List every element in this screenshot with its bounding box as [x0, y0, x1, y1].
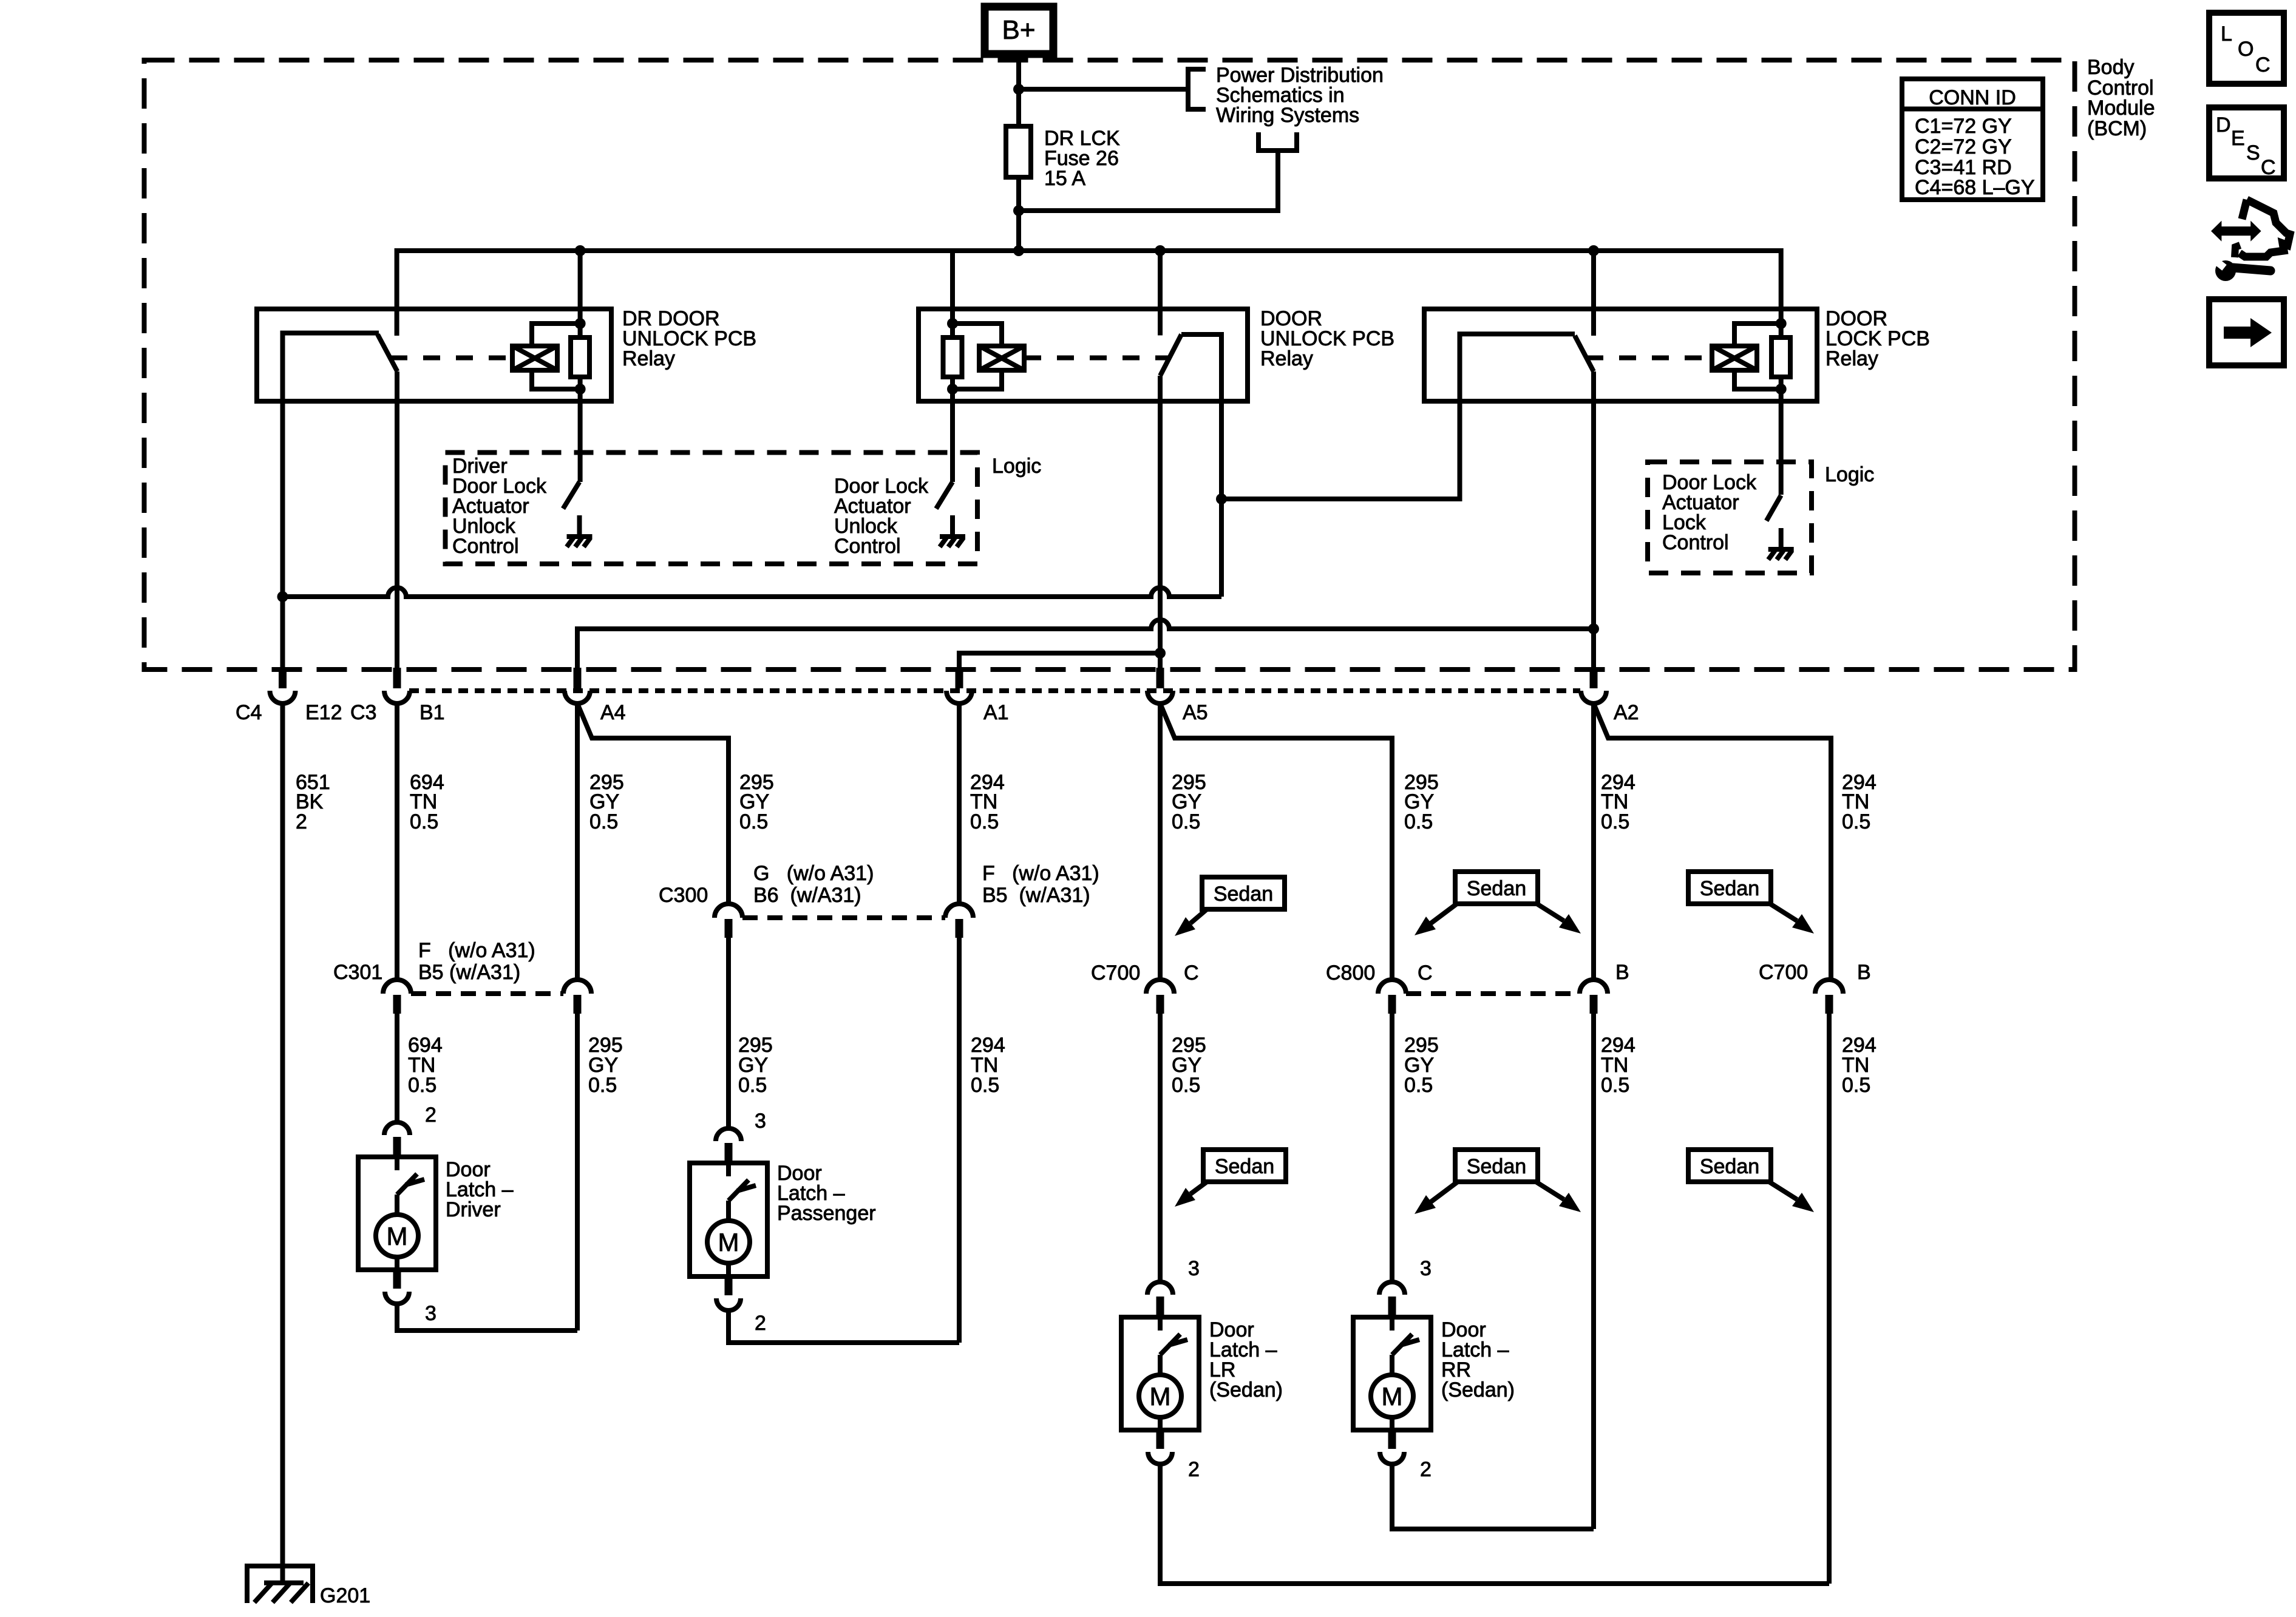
svg-text:Sedan: Sedan	[1700, 1155, 1759, 1178]
svg-text:0.5: 0.5	[971, 1074, 999, 1097]
svg-text:0.5: 0.5	[970, 810, 999, 833]
svg-text:C800: C800	[1326, 961, 1375, 985]
svg-text:3: 3	[755, 1110, 766, 1133]
svg-text:0.5: 0.5	[739, 810, 768, 833]
svg-text:F (w/o A31): F (w/o A31)	[982, 862, 1099, 885]
svg-text:Sedan: Sedan	[1467, 1155, 1526, 1178]
svg-text:0.5: 0.5	[1601, 1074, 1629, 1097]
svg-text:C300: C300	[659, 884, 708, 907]
svg-text:Sedan: Sedan	[1467, 877, 1526, 900]
svg-text:E12: E12	[305, 701, 342, 724]
svg-text:C3: C3	[350, 701, 376, 724]
svg-text:C700: C700	[1091, 961, 1140, 985]
svg-text:(BCM): (BCM)	[2087, 117, 2147, 140]
svg-text:A2: A2	[1614, 701, 1639, 724]
svg-text:Logic: Logic	[992, 455, 1041, 478]
svg-text:Sedan: Sedan	[1700, 877, 1759, 900]
svg-text:0.5: 0.5	[588, 1074, 617, 1097]
svg-text:Relay: Relay	[622, 347, 675, 370]
svg-text:(Sedan): (Sedan)	[1441, 1378, 1515, 1402]
svg-text:0.5: 0.5	[738, 1074, 767, 1097]
svg-text:B: B	[1615, 961, 1629, 984]
svg-text:0.5: 0.5	[1601, 810, 1629, 833]
svg-text:B5 (w/A31): B5 (w/A31)	[418, 961, 520, 984]
svg-text:M: M	[718, 1228, 739, 1256]
svg-text:0.5: 0.5	[1404, 810, 1433, 833]
svg-text:O: O	[2238, 38, 2254, 61]
svg-text:Logic: Logic	[1825, 463, 1874, 486]
svg-text:Sedan: Sedan	[1215, 1155, 1274, 1178]
svg-text:S: S	[2246, 141, 2260, 164]
svg-text:B6 (w/A31): B6 (w/A31)	[753, 884, 861, 907]
svg-text:B: B	[1857, 961, 1871, 984]
svg-text:0.5: 0.5	[1172, 810, 1200, 833]
svg-text:C4=68 L–GY: C4=68 L–GY	[1915, 176, 2035, 199]
svg-text:D: D	[2216, 114, 2231, 137]
svg-text:A4: A4	[600, 701, 626, 724]
svg-text:0.5: 0.5	[1842, 810, 1870, 833]
svg-text:3: 3	[425, 1302, 436, 1325]
svg-text:G201: G201	[320, 1584, 370, 1607]
svg-text:2: 2	[1188, 1458, 1200, 1481]
svg-text:15 A: 15 A	[1044, 167, 1085, 190]
svg-text:M: M	[1150, 1382, 1171, 1411]
svg-text:Control: Control	[452, 535, 519, 558]
svg-text:0.5: 0.5	[1842, 1074, 1870, 1097]
svg-text:Module: Module	[2087, 97, 2155, 120]
svg-text:Body: Body	[2087, 56, 2135, 79]
svg-text:B1: B1	[419, 701, 445, 724]
svg-text:C1=72 GY: C1=72 GY	[1915, 115, 2012, 138]
svg-text:Driver: Driver	[446, 1198, 501, 1221]
svg-text:G (w/o A31): G (w/o A31)	[753, 862, 874, 885]
svg-text:F (w/o A31): F (w/o A31)	[418, 939, 535, 962]
svg-text:Relay: Relay	[1826, 347, 1878, 370]
svg-text:2: 2	[755, 1312, 766, 1335]
svg-text:0.5: 0.5	[410, 810, 438, 833]
svg-text:2: 2	[296, 810, 307, 833]
svg-text:M: M	[387, 1222, 408, 1250]
svg-text:Sedan: Sedan	[1214, 883, 1273, 906]
svg-text:Wiring Systems: Wiring Systems	[1216, 104, 1359, 127]
svg-text:0.5: 0.5	[1172, 1074, 1200, 1097]
svg-text:0.5: 0.5	[1404, 1074, 1433, 1097]
svg-text:C4: C4	[236, 701, 262, 724]
svg-text:Passenger: Passenger	[777, 1202, 876, 1225]
svg-text:3: 3	[1188, 1257, 1200, 1280]
svg-text:Control: Control	[1662, 531, 1729, 554]
svg-text:(Sedan): (Sedan)	[1209, 1378, 1283, 1402]
svg-text:L: L	[2221, 22, 2232, 46]
svg-text:0.5: 0.5	[589, 810, 618, 833]
svg-text:B5 (w/A31): B5 (w/A31)	[982, 884, 1090, 907]
svg-text:M: M	[1382, 1382, 1403, 1411]
svg-text:C: C	[1418, 961, 1433, 985]
svg-text:C700: C700	[1759, 961, 1808, 984]
svg-text:C: C	[2255, 53, 2271, 76]
svg-text:B+: B+	[1002, 15, 1035, 45]
svg-text:A1: A1	[983, 701, 1009, 724]
svg-text:E: E	[2231, 127, 2245, 150]
svg-text:Relay: Relay	[1260, 347, 1313, 370]
svg-text:C301: C301	[333, 961, 382, 984]
svg-text:2: 2	[1420, 1458, 1432, 1481]
svg-text:3: 3	[1420, 1257, 1432, 1280]
svg-text:2: 2	[425, 1103, 436, 1127]
svg-text:CONN ID: CONN ID	[1929, 86, 2016, 109]
svg-text:C2=72 GY: C2=72 GY	[1915, 135, 2012, 158]
svg-text:C: C	[1184, 961, 1199, 985]
svg-text:A5: A5	[1183, 701, 1208, 724]
svg-text:C: C	[2261, 156, 2276, 179]
svg-text:0.5: 0.5	[408, 1074, 436, 1097]
svg-text:Control: Control	[834, 535, 901, 558]
